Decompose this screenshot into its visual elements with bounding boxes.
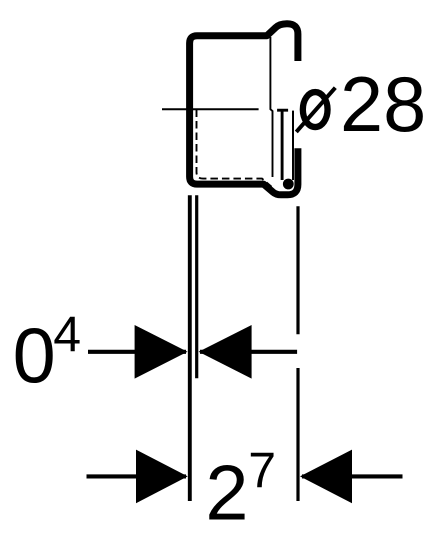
horizontal centerline: [162, 108, 259, 110]
svg-text:4: 4: [53, 307, 81, 363]
dimension line 0.4 (right tail): [200, 350, 297, 354]
right inner thin line: [292, 111, 294, 180]
extension line E3 (right, with gap at dim line): [296, 206, 299, 501]
dimension line 2.7 (left tail): [87, 474, 187, 478]
dashed hidden line inside lower half: [197, 110, 272, 187]
svg-text:2: 2: [205, 450, 248, 536]
svg-text:28: 28: [340, 62, 426, 148]
inner wall thin line with jog at centerline: [270, 37, 272, 177]
diameter symbol of label ø28: [296, 88, 335, 132]
bead dot in rolled edge: [283, 179, 294, 190]
arrow right-pointing (2.7 left): [136, 450, 188, 504]
arrow left-pointing (2.7 right): [300, 450, 352, 504]
T-shaped inner line (stem): [281, 110, 284, 180]
T-shaped inner line (cap): [277, 109, 288, 112]
extension line E1 (left wall): [188, 195, 192, 501]
dimension line 0.4 (left tail): [88, 350, 186, 354]
extension line E2 (inner wall): [195, 195, 198, 378]
svg-text:0: 0: [13, 313, 56, 399]
arrow right-pointing (0.4 left): [135, 325, 188, 379]
cap outer outline with top hook and bottom rolled edge: [190, 24, 298, 195]
svg-text:7: 7: [248, 443, 276, 499]
arrow left-pointing (0.4 right): [199, 325, 252, 379]
dimension line 2.7 (right tail): [302, 474, 403, 478]
